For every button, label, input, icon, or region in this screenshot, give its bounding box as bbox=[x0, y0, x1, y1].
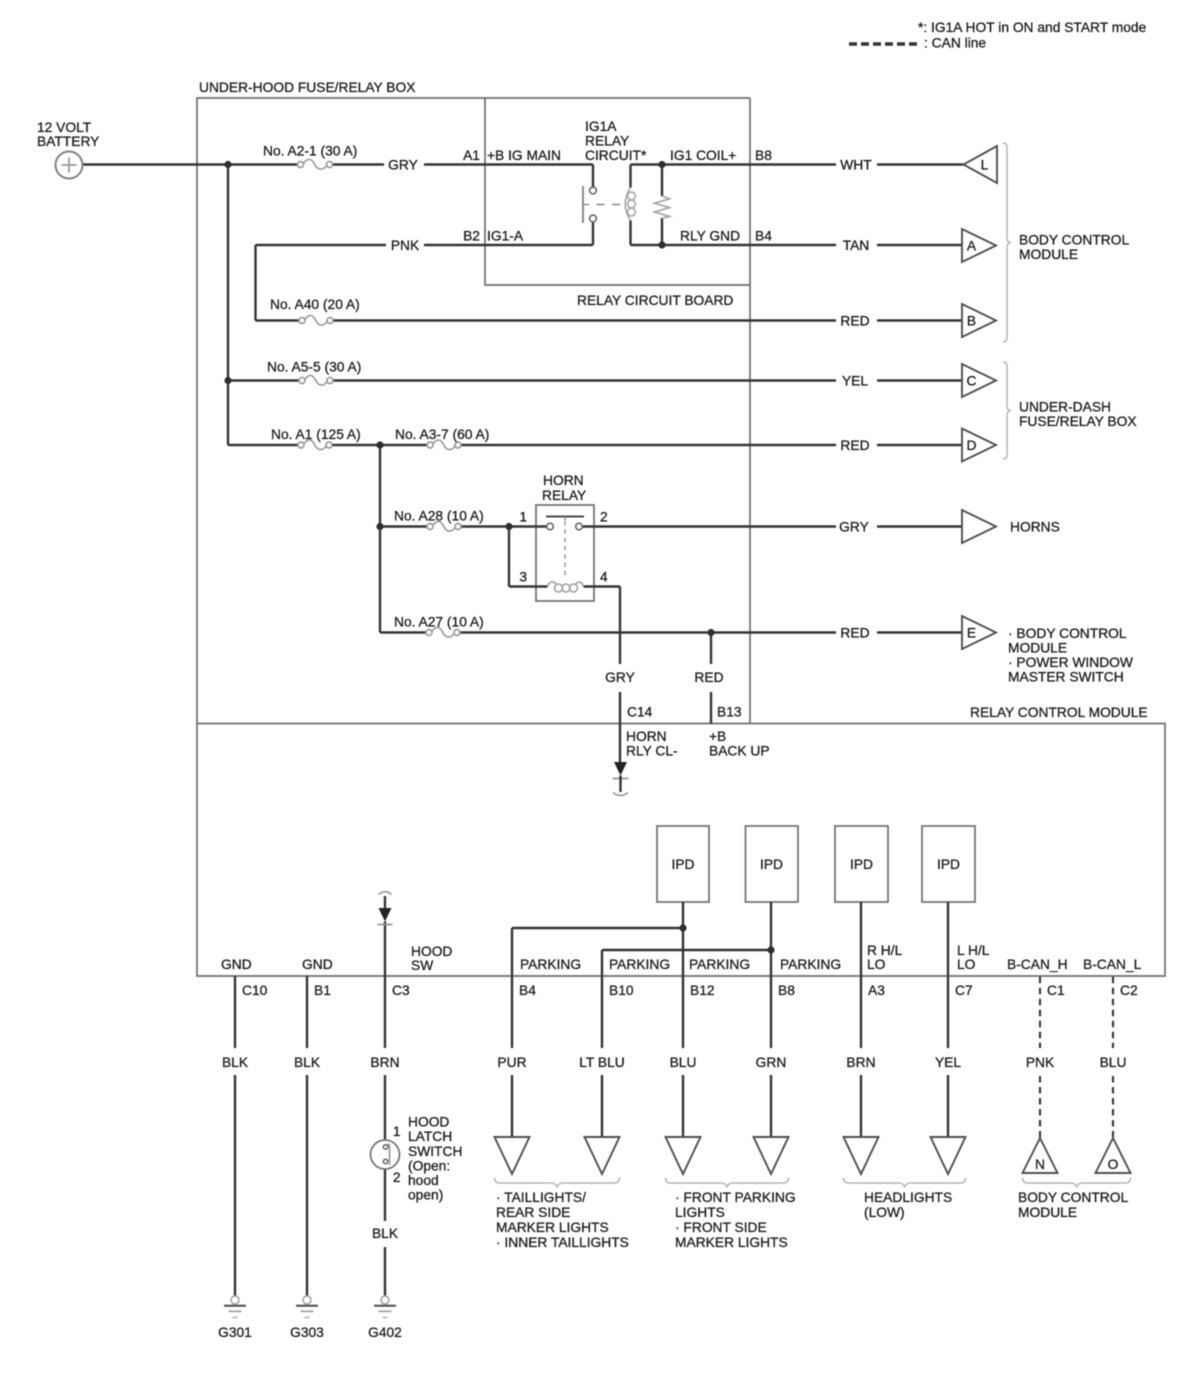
svg-text:WHT: WHT bbox=[840, 158, 872, 173]
svg-text:LO: LO bbox=[957, 957, 976, 972]
svg-text:UNDER-DASH: UNDER-DASH bbox=[1019, 400, 1111, 415]
svg-text:MODULE: MODULE bbox=[1008, 641, 1067, 656]
svg-text:E: E bbox=[967, 626, 976, 641]
svg-text:C7: C7 bbox=[955, 983, 973, 998]
svg-text:C2: C2 bbox=[1120, 983, 1138, 998]
svg-text:L H/L: L H/L bbox=[957, 943, 990, 958]
svg-text:D: D bbox=[967, 438, 977, 453]
svg-text:SW: SW bbox=[411, 958, 433, 973]
svg-text:+B IG MAIN: +B IG MAIN bbox=[487, 148, 561, 163]
svg-text:No. A27 (10 A): No. A27 (10 A) bbox=[394, 615, 484, 630]
svg-text:BLK: BLK bbox=[294, 1055, 321, 1070]
svg-text:TAN: TAN bbox=[843, 238, 870, 253]
svg-text:B: B bbox=[967, 314, 976, 329]
svg-text:HOOD: HOOD bbox=[408, 1115, 449, 1130]
svg-text:C: C bbox=[967, 374, 977, 389]
svg-text:BACK UP: BACK UP bbox=[709, 744, 770, 759]
svg-text:hood: hood bbox=[408, 1173, 439, 1188]
svg-text:· TAILLIGHTS/: · TAILLIGHTS/ bbox=[496, 1190, 586, 1205]
svg-text:GRY: GRY bbox=[388, 158, 418, 173]
svg-text:N: N bbox=[1035, 1157, 1045, 1172]
svg-text:PUR: PUR bbox=[497, 1055, 526, 1070]
svg-text:IPD: IPD bbox=[672, 857, 695, 872]
svg-text:B13: B13 bbox=[717, 705, 742, 720]
svg-text:BODY CONTROL: BODY CONTROL bbox=[1018, 1190, 1128, 1205]
svg-text:C10: C10 bbox=[242, 983, 268, 998]
svg-text:LO: LO bbox=[867, 957, 886, 972]
svg-text:BLU: BLU bbox=[1100, 1055, 1127, 1070]
svg-text:IPD: IPD bbox=[937, 857, 960, 872]
svg-text:3: 3 bbox=[519, 570, 527, 585]
svg-text:UNDER-HOOD FUSE/RELAY BOX: UNDER-HOOD FUSE/RELAY BOX bbox=[199, 80, 415, 95]
svg-text:· INNER TAILLIGHTS: · INNER TAILLIGHTS bbox=[496, 1235, 629, 1250]
svg-text:4: 4 bbox=[600, 570, 608, 585]
svg-text:GRY: GRY bbox=[605, 670, 635, 685]
svg-text:BODY CONTROL: BODY CONTROL bbox=[1019, 233, 1129, 248]
svg-text:· FRONT PARKING: · FRONT PARKING bbox=[675, 1190, 796, 1205]
svg-text:C14: C14 bbox=[627, 705, 653, 720]
svg-text:BRN: BRN bbox=[846, 1055, 875, 1070]
svg-text:IPD: IPD bbox=[850, 857, 873, 872]
svg-text:PARKING: PARKING bbox=[520, 957, 581, 972]
svg-text:MARKER LIGHTS: MARKER LIGHTS bbox=[675, 1235, 788, 1250]
svg-text:No. A5-5 (30 A): No. A5-5 (30 A) bbox=[267, 360, 361, 375]
svg-text:G301: G301 bbox=[218, 1325, 252, 1340]
svg-text:HORNS: HORNS bbox=[1010, 520, 1060, 535]
svg-text:B8: B8 bbox=[778, 983, 795, 998]
svg-text:No. A40 (20 A): No. A40 (20 A) bbox=[270, 297, 360, 312]
svg-text:· BODY CONTROL: · BODY CONTROL bbox=[1008, 626, 1127, 641]
svg-text:MASTER SWITCH: MASTER SWITCH bbox=[1008, 670, 1124, 685]
svg-text:LATCH: LATCH bbox=[408, 1129, 452, 1144]
svg-text:SWITCH: SWITCH bbox=[408, 1144, 462, 1159]
svg-text:MARKER LIGHTS: MARKER LIGHTS bbox=[496, 1220, 609, 1235]
svg-text:IG1A: IG1A bbox=[585, 119, 617, 134]
svg-text:HEADLIGHTS: HEADLIGHTS bbox=[864, 1190, 952, 1205]
svg-text:BATTERY: BATTERY bbox=[37, 134, 99, 149]
svg-text:B1: B1 bbox=[314, 983, 331, 998]
svg-text:BLK: BLK bbox=[372, 1226, 399, 1241]
svg-text:L: L bbox=[981, 158, 989, 173]
svg-text:RED: RED bbox=[840, 438, 869, 453]
svg-text:B10: B10 bbox=[609, 983, 634, 998]
svg-text:PARKING: PARKING bbox=[609, 957, 670, 972]
svg-text:PNK: PNK bbox=[391, 238, 420, 253]
svg-text:B-CAN_L: B-CAN_L bbox=[1083, 957, 1142, 972]
svg-text:B12: B12 bbox=[690, 983, 715, 998]
svg-text:BLU: BLU bbox=[670, 1055, 697, 1070]
svg-text:IPD: IPD bbox=[760, 857, 783, 872]
svg-text:No. A1 (125 A): No. A1 (125 A) bbox=[271, 427, 361, 442]
svg-text:B4: B4 bbox=[755, 229, 772, 244]
svg-text:RELAY CONTROL MODULE: RELAY CONTROL MODULE bbox=[970, 705, 1148, 720]
svg-text:1: 1 bbox=[393, 1124, 401, 1139]
svg-text:RELAY: RELAY bbox=[542, 488, 586, 503]
svg-text:YEL: YEL bbox=[842, 374, 868, 389]
svg-text:IG1 COIL+: IG1 COIL+ bbox=[670, 148, 736, 163]
svg-text:C1: C1 bbox=[1047, 983, 1065, 998]
svg-text:PARKING: PARKING bbox=[689, 957, 750, 972]
svg-text:HOOD: HOOD bbox=[411, 944, 452, 959]
svg-text:O: O bbox=[1108, 1157, 1119, 1172]
svg-text:RLY GND: RLY GND bbox=[680, 229, 740, 244]
svg-text:2: 2 bbox=[393, 1170, 401, 1185]
svg-text:GND: GND bbox=[221, 957, 252, 972]
svg-text:RED: RED bbox=[694, 670, 723, 685]
svg-text:MODULE: MODULE bbox=[1019, 247, 1078, 262]
svg-text:B4: B4 bbox=[519, 983, 536, 998]
svg-text:PNK: PNK bbox=[1026, 1055, 1055, 1070]
svg-text:RELAY CIRCUIT BOARD: RELAY CIRCUIT BOARD bbox=[577, 293, 733, 308]
svg-text:· POWER WINDOW: · POWER WINDOW bbox=[1008, 655, 1133, 670]
svg-text:RLY CL-: RLY CL- bbox=[626, 744, 678, 759]
svg-text:12 VOLT: 12 VOLT bbox=[37, 120, 92, 135]
svg-text:(LOW): (LOW) bbox=[864, 1205, 905, 1220]
svg-text:HORN: HORN bbox=[626, 729, 667, 744]
svg-text:No. A28 (10 A): No. A28 (10 A) bbox=[394, 509, 484, 524]
svg-text:R H/L: R H/L bbox=[867, 943, 903, 958]
svg-text:: CAN line: : CAN line bbox=[924, 36, 986, 51]
svg-text:GRY: GRY bbox=[839, 520, 869, 535]
svg-text:HORN: HORN bbox=[543, 473, 584, 488]
svg-text:RELAY: RELAY bbox=[585, 134, 629, 149]
svg-text:BRN: BRN bbox=[370, 1055, 399, 1070]
svg-text:IG1-A: IG1-A bbox=[487, 229, 524, 244]
svg-text:A3: A3 bbox=[868, 983, 885, 998]
svg-text:BLK: BLK bbox=[222, 1055, 249, 1070]
svg-text:FUSE/RELAY BOX: FUSE/RELAY BOX bbox=[1019, 414, 1137, 429]
svg-text:G303: G303 bbox=[290, 1325, 324, 1340]
svg-text:A1: A1 bbox=[463, 148, 480, 163]
svg-text:YEL: YEL bbox=[935, 1055, 961, 1070]
svg-text:G402: G402 bbox=[368, 1325, 402, 1340]
svg-text:2: 2 bbox=[600, 510, 608, 525]
svg-text:CIRCUIT*: CIRCUIT* bbox=[585, 148, 647, 163]
svg-text:open): open) bbox=[408, 1188, 443, 1203]
svg-text:GRN: GRN bbox=[756, 1055, 787, 1070]
svg-text:REAR SIDE: REAR SIDE bbox=[496, 1205, 570, 1220]
svg-text:No. A2-1 (30 A): No. A2-1 (30 A) bbox=[263, 144, 357, 159]
svg-text:B2: B2 bbox=[463, 229, 480, 244]
svg-text:RED: RED bbox=[840, 314, 869, 329]
svg-text:1: 1 bbox=[519, 510, 527, 525]
svg-text:B8: B8 bbox=[755, 148, 772, 163]
svg-text:A: A bbox=[967, 239, 977, 254]
svg-text:RED: RED bbox=[840, 626, 869, 641]
svg-text:PARKING: PARKING bbox=[780, 957, 841, 972]
svg-text:C3: C3 bbox=[392, 983, 410, 998]
svg-text:(Open:: (Open: bbox=[408, 1159, 450, 1174]
svg-text:LIGHTS: LIGHTS bbox=[675, 1205, 725, 1220]
svg-text:· FRONT SIDE: · FRONT SIDE bbox=[675, 1220, 767, 1235]
svg-text:MODULE: MODULE bbox=[1018, 1205, 1077, 1220]
svg-text:No. A3-7 (60 A): No. A3-7 (60 A) bbox=[395, 427, 489, 442]
svg-text:+B: +B bbox=[709, 729, 726, 744]
svg-text:LT BLU: LT BLU bbox=[579, 1055, 625, 1070]
svg-text:GND: GND bbox=[302, 957, 333, 972]
svg-text:*: IG1A HOT in ON and START mo: *: IG1A HOT in ON and START mode bbox=[918, 20, 1147, 35]
svg-text:B-CAN_H: B-CAN_H bbox=[1007, 957, 1068, 972]
